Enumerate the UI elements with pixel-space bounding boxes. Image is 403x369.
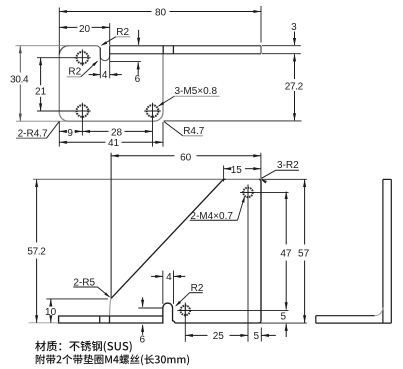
svg-text:30.4: 30.4 [10, 74, 29, 85]
dim 6 notch depth [110, 61, 141, 63]
svg-text:27.2: 27.2 [285, 81, 304, 92]
svg-text:47: 47 [280, 248, 292, 259]
svg-text:20: 20 [79, 24, 91, 35]
bend ticks on strip [162, 45, 164, 54]
svg-text:9: 9 [67, 128, 73, 139]
svg-text:57: 57 [298, 248, 310, 259]
hole M4 upper [243, 188, 253, 198]
dim 4 notch [99, 48, 101, 79]
svg-text:80: 80 [155, 7, 167, 18]
svg-text:4: 4 [102, 70, 108, 81]
svg-text:21: 21 [35, 86, 47, 97]
hole center extensions lower view [240, 191, 289, 193]
dim 47 [285, 192, 287, 245]
note line1 material [35, 341, 132, 353]
dim 41 [59, 141, 105, 143]
lower view slot with R2 dome [59, 303, 175, 323]
dim 30.4 [16, 45, 69, 47]
svg-text:41: 41 [108, 138, 120, 149]
hole M5 top-left [77, 52, 89, 64]
dim 80 [58, 8, 60, 54]
dim 15 [223, 166, 225, 182]
svg-text:5: 5 [254, 331, 260, 342]
top view tab strip (3mm) [110, 45, 261, 47]
dim 57 side height [262, 178, 307, 180]
dim 60 [110, 153, 112, 298]
svg-text:3-M5×0.8: 3-M5×0.8 [175, 86, 218, 97]
svg-text:R2: R2 [68, 67, 81, 78]
svg-text:5: 5 [281, 312, 287, 323]
svg-text:6: 6 [135, 74, 141, 85]
svg-text:4: 4 [166, 272, 172, 283]
hole M5 bottom-left [77, 105, 89, 117]
dim 5 bottom [260, 328, 262, 342]
svg-text:10: 10 [45, 307, 57, 318]
dim 3 tab thickness [262, 45, 301, 47]
diagonal edge [111, 179, 226, 298]
dim 25 [185, 334, 207, 336]
dim 27.2 [164, 120, 302, 122]
hole M5 bottom-right [147, 105, 159, 117]
bend ticks lower flange [99, 316, 101, 324]
svg-text:6: 6 [140, 335, 146, 346]
svg-text:25: 25 [213, 331, 225, 342]
bend R5 arc lower view [110, 298, 111, 316]
lower view right edge and bottom [175, 179, 261, 323]
dim 6 slot height [138, 307, 163, 309]
note line2 screws [36, 354, 189, 365]
dim 21 [37, 57, 75, 59]
dim 20 [109, 23, 111, 45]
lower view top edge [33, 178, 259, 180]
dim 10 [46, 298, 108, 300]
hole M4 lower [181, 306, 191, 316]
top view plate outline [59, 46, 163, 122]
side view L-angle [382, 179, 384, 323]
dim 9 and 28 [58, 121, 60, 146]
svg-text:3-R2: 3-R2 [277, 160, 299, 171]
svg-text:28: 28 [111, 128, 123, 139]
dim 4 slot [162, 271, 164, 304]
dim 57.2 [29, 322, 59, 324]
top view notch (R2) [96, 46, 109, 61]
svg-text:57.2: 57.2 [27, 247, 46, 258]
svg-text:15: 15 [231, 165, 243, 176]
svg-text:60: 60 [180, 152, 192, 163]
